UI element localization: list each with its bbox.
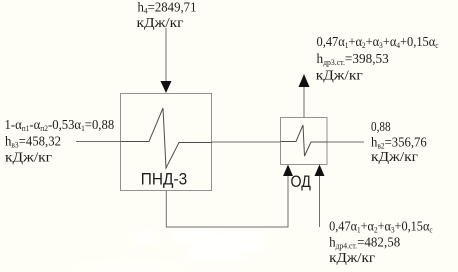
wire drain out of ОД top	[303, 86, 305, 118]
svg-text:0,47α1+α2+α3+0,15αс: 0,47α1+α2+α3+0,15αс	[329, 218, 433, 235]
wire drain inlet bottom right	[319, 176, 321, 227]
arrowhead drain into ОД bottom left	[283, 165, 293, 177]
heating surface zigzag ОД	[281, 125, 328, 156]
wire between boxes	[212, 141, 281, 143]
svg-text:кДж/кг: кДж/кг	[137, 16, 184, 31]
svg-text:кДж/кг: кДж/кг	[371, 149, 418, 164]
svg-text:кДж/кг: кДж/кг	[316, 68, 363, 83]
wire feedwater inlet left	[76, 141, 121, 143]
heating surface zigzag ПНД-3	[121, 108, 212, 168]
svg-text:0,47α1+α2+α3+α4+0,15αс: 0,47α1+α2+α3+α4+0,15αс	[317, 33, 440, 50]
arrowhead drain up	[299, 74, 310, 87]
heater box ПНД-3	[121, 94, 212, 191]
svg-text:ПНД-3: ПНД-3	[141, 170, 187, 189]
drain cooler box ОД	[281, 118, 328, 165]
wire drain elbow ПНД-3 to ОД	[166, 176, 288, 227]
svg-text:ОД: ОД	[291, 173, 312, 191]
svg-text:0,88: 0,88	[371, 119, 391, 134]
wire steam inlet (down into ПНД-3)	[165, 28, 167, 84]
wire feedwater outlet right	[327, 141, 364, 143]
svg-text:кДж/кг: кДж/кг	[329, 250, 375, 265]
svg-text:кДж/кг: кДж/кг	[5, 150, 52, 165]
arrowhead steam inlet	[161, 81, 172, 93]
svg-text:1-αп1-αп2-0,53α1=0,88: 1-αп1-αп2-0,53α1=0,88	[5, 116, 115, 133]
arrowhead drain into ОД bottom right	[315, 165, 325, 177]
